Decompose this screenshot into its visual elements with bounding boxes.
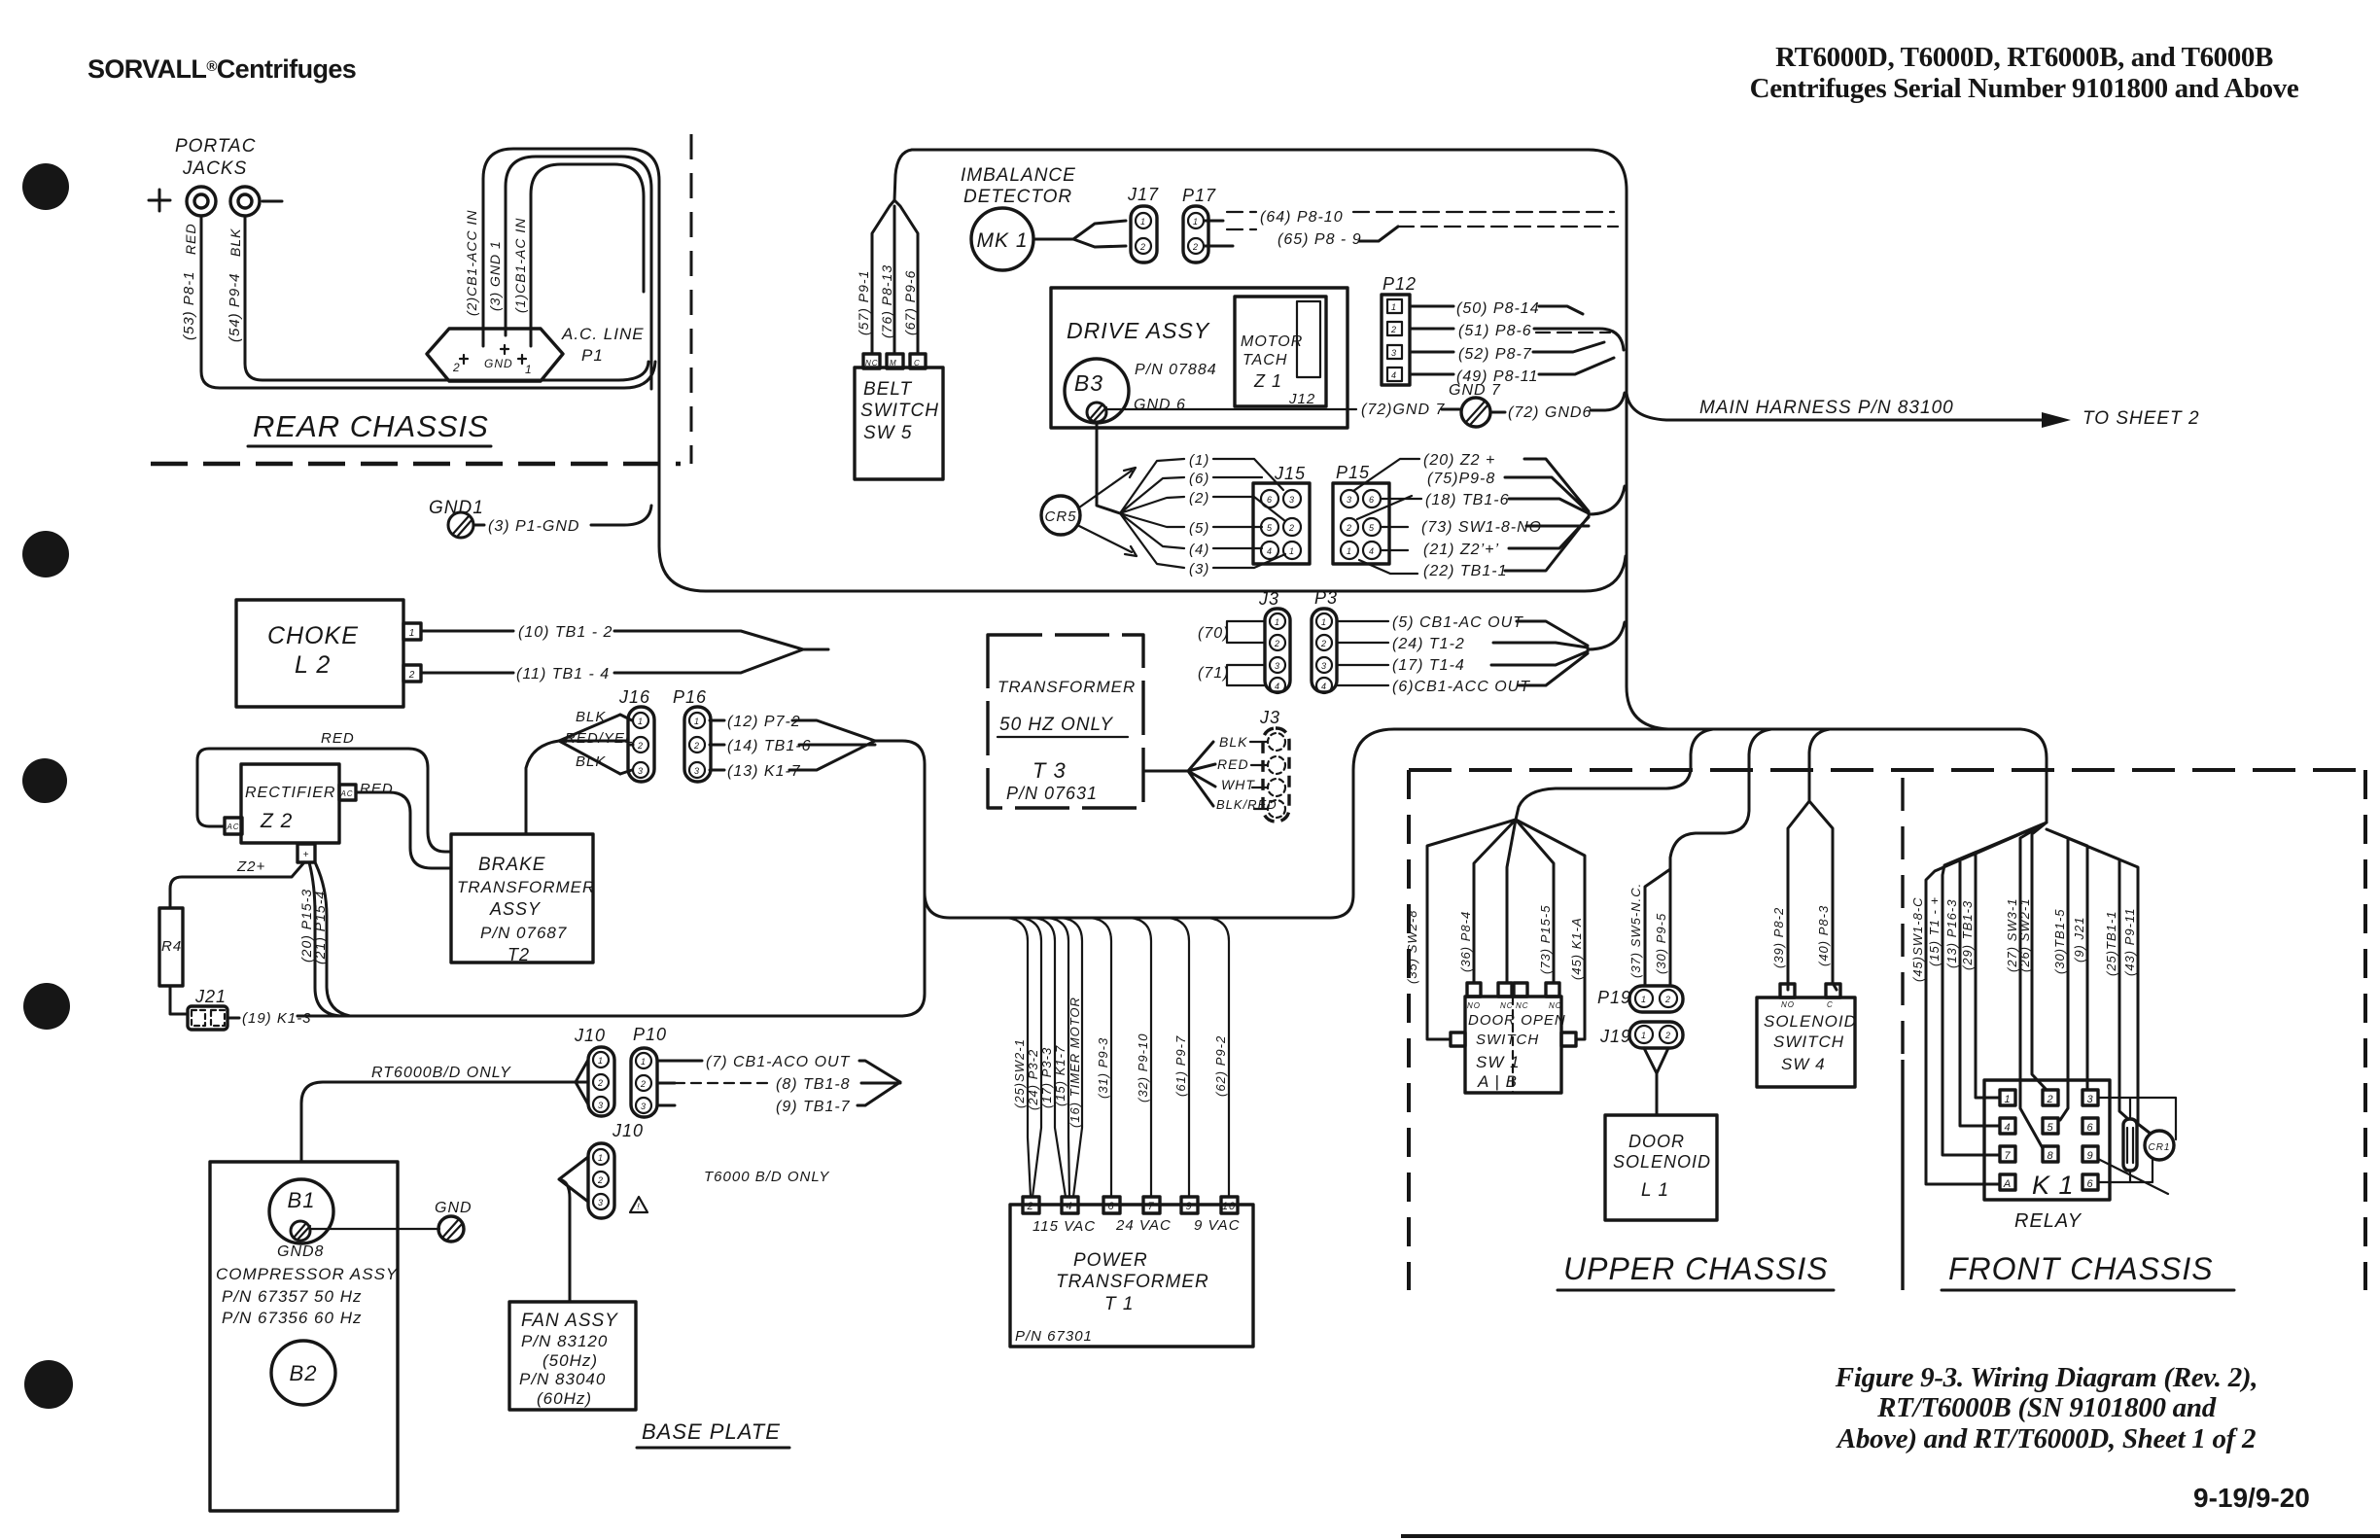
svg-text:J16: J16 [618,687,650,707]
svg-text:(1): (1) [1189,452,1209,469]
svg-text:3: 3 [1289,495,1295,505]
rectifier Z2 [225,764,394,862]
svg-text:1: 1 [694,717,700,726]
svg-text:C: C [914,359,921,367]
svg-text:6: 6 [2086,1122,2093,1134]
svg-text:SOLENOID: SOLENOID [1764,1012,1857,1031]
svg-text:(45) K1-A: (45) K1-A [1569,917,1584,980]
svg-text:MAIN HARNESS P/N 83100: MAIN HARNESS P/N 83100 [1699,398,1954,418]
svg-text:10: 10 [1222,1201,1236,1212]
svg-text:RED: RED [183,223,198,255]
svg-text:R4: R4 [161,938,182,955]
svg-text:SOLENOID: SOLENOID [1613,1152,1711,1172]
connector: J16 [618,687,654,782]
svg-text:(9) J21: (9) J21 [2072,917,2086,962]
svg-text:NO: NO [1781,1000,1795,1009]
svg-text:3: 3 [641,1102,647,1111]
svg-text:5: 5 [2047,1122,2053,1134]
wires: door switch fan [1405,820,1585,1039]
svg-text:BLK: BLK [227,228,243,257]
svg-text:BELT: BELT [863,379,913,400]
wire: branch to P19 [1628,729,1771,986]
svg-text:M: M [890,359,897,367]
wires: front chassis harness fan [1926,822,2151,1184]
svg-text:(57) P9-1: (57) P9-1 [856,270,871,335]
svg-text:115 VAC: 115 VAC [1032,1218,1096,1235]
wire: P17 dashed leads to P8-10 / P8-9 [1205,209,1618,248]
svg-text:(76) P8-13: (76) P8-13 [879,264,894,338]
svg-text:8: 8 [2047,1150,2053,1162]
svg-text:POWER: POWER [1073,1250,1148,1271]
svg-text:2: 2 [1139,242,1146,252]
svg-text:(53) P8-1: (53) P8-1 [181,270,197,340]
svg-text:(31) P9-3: (31) P9-3 [1096,1037,1110,1099]
svg-text:(51) P8-6: (51) P8-6 [1458,323,1532,339]
svg-text:(72)GND 7: (72)GND 7 [1361,402,1445,418]
svg-text:4: 4 [1275,682,1280,691]
svg-text:NO: NO [1467,1001,1481,1010]
svg-text:B3: B3 [1074,370,1103,396]
label BASE PLATE [637,1419,789,1448]
svg-text:A | B: A | B [1477,1072,1518,1091]
svg-text:ASSY: ASSY [489,899,542,919]
svg-text:T 3: T 3 [1032,758,1067,783]
svg-text:(17) T1-4: (17) T1-4 [1392,657,1465,674]
svg-text:1: 1 [1275,617,1280,627]
wires: P15 to harness labels [1353,452,1625,579]
diode CR1 [2145,1131,2176,1160]
svg-text:(10) TB1 - 2: (10) TB1 - 2 [518,624,612,641]
svg-text:TACH: TACH [1242,352,1287,368]
wire: J19 to door solenoid [1644,1048,1668,1115]
switch: DOOR OPEN SWITCH SW1 A/B [1451,983,1576,1093]
svg-text:Z2+: Z2+ [236,858,265,875]
svg-text:RT6000D, T6000D, RT6000B, and: RT6000D, T6000D, RT6000B, and T6000B [1775,42,2273,73]
svg-text:GND 6: GND 6 [1134,397,1186,413]
wire: B3 to GND7 [1106,402,1460,418]
svg-text:(20) Z2 +: (20) Z2 + [1423,452,1495,469]
svg-text:(54) P9-4: (54) P9-4 [227,272,243,342]
svg-text:RED: RED [321,730,355,747]
svg-text:9: 9 [1185,1201,1192,1212]
svg-text:1: 1 [1391,302,1397,312]
svg-text:3: 3 [1275,661,1280,671]
svg-text:SORVALL®Centrifuges: SORVALL®Centrifuges [87,54,356,84]
svg-text:P/N 67301: P/N 67301 [1015,1328,1093,1345]
svg-text:MOTOR: MOTOR [1241,333,1303,350]
svg-text:DRIVE ASSY: DRIVE ASSY [1067,318,1210,343]
box: MOTOR TACH Z1 [1235,297,1326,407]
svg-text:FRONT CHASSIS: FRONT CHASSIS [1948,1251,2214,1286]
wire: loop left corner into belt apex [894,150,912,200]
svg-text:L 1: L 1 [1641,1180,1669,1201]
svg-text:3: 3 [694,766,700,776]
switch: SOLENOID SWITCH SW4 [1757,984,1857,1087]
svg-text:3: 3 [638,766,644,776]
svg-text:P/N 83040: P/N 83040 [519,1370,606,1388]
labels: T1 primary leads [1012,997,1228,1128]
wire: (19) K1-3 run [297,1015,902,1018]
svg-text:4: 4 [1369,546,1375,556]
svg-text:(13) P16-3: (13) P16-3 [1944,899,1959,968]
label REAR CHASSIS [248,409,491,446]
svg-text:P16: P16 [673,687,707,707]
label RED (top wire) [321,730,355,747]
svg-text:Above) and RT/T6000D, Sheet 1: Above) and RT/T6000D, Sheet 1 of 2 [1836,1423,2256,1454]
svg-text:(72) GND6: (72) GND6 [1508,404,1592,421]
page number [2193,1483,2310,1513]
svg-text:B2: B2 [290,1361,318,1385]
svg-text:(3) GND 1: (3) GND 1 [487,240,503,311]
svg-text:(24) T1-2: (24) T1-2 [1392,636,1465,652]
svg-text:PORTAC: PORTAC [175,136,256,157]
svg-text:(43) P9-11: (43) P9-11 [2122,908,2137,976]
svg-text:(25)TB1-1: (25)TB1-1 [2104,910,2118,976]
fan assembly [509,1302,636,1410]
svg-text:(50Hz): (50Hz) [542,1351,598,1370]
svg-text:P/N 67356 60 Hz: P/N 67356 60 Hz [222,1309,362,1327]
svg-text:DOOR OPEN: DOOR OPEN [1468,1012,1566,1029]
svg-text:(35) SW2-8: (35) SW2-8 [1405,910,1419,984]
svg-text:(12) P7-2: (12) P7-2 [727,714,801,730]
wires: P10 outputs [657,1054,900,1115]
svg-text:9 VAC: 9 VAC [1194,1217,1241,1234]
svg-text:RECTIFIER: RECTIFIER [245,785,335,801]
svg-text:J15: J15 [1274,464,1306,483]
svg-text:(19) K1-3: (19) K1-3 [242,1010,312,1027]
switch: BELT SWITCH SW5 [855,200,943,479]
svg-text:1: 1 [1641,1031,1647,1040]
svg-text:1: 1 [409,628,416,639]
svg-text:2: 2 [1026,1201,1033,1212]
rear chassis dashed boundary [151,134,691,464]
label FRONT CHASSIS [1942,1251,2234,1290]
svg-text:GND: GND [484,357,513,370]
compressor assembly [210,1162,399,1511]
wires: P16 outputs merging right [710,714,1672,1016]
svg-text:L 2: L 2 [295,651,331,679]
connector: P19 [1597,986,1683,1012]
svg-text:3: 3 [598,1101,604,1110]
transformer: POWER TRANSFORMER T1 [1010,1197,1253,1347]
svg-text:2: 2 [1346,523,1352,533]
svg-text:T2: T2 [507,945,530,964]
wire: rectifier AC left loop [197,749,451,852]
svg-text:P/N 83120: P/N 83120 [521,1332,608,1350]
svg-text:(49) P8-11: (49) P8-11 [1456,368,1538,385]
svg-text:1: 1 [641,1057,647,1067]
svg-text:2: 2 [452,361,461,374]
svg-text:2: 2 [1390,325,1397,334]
svg-text:WHT: WHT [1221,777,1255,792]
svg-text:6: 6 [1369,495,1375,505]
svg-text:(29) TB1-3: (29) TB1-3 [1960,900,1975,970]
svg-text:RT6000B/D ONLY: RT6000B/D ONLY [371,1065,511,1081]
svg-text:5: 5 [1267,523,1273,533]
svg-text:(25)SW2-1: (25)SW2-1 [1012,1038,1027,1108]
wires: P12 to harness [1410,300,1624,385]
svg-text:BLK: BLK [576,753,606,770]
svg-text:TRANSFORMER: TRANSFORMER [457,878,595,896]
svg-text:SWITCH: SWITCH [860,401,939,421]
svg-text:5: 5 [1369,523,1375,533]
svg-text:(24) P3-2: (24) P3-2 [1026,1049,1040,1110]
svg-text:RED: RED [360,781,394,797]
svg-text:IMBALANCE: IMBALANCE [961,165,1076,186]
svg-text:7: 7 [1147,1201,1154,1212]
connector: J17 [1127,185,1159,262]
svg-text:2: 2 [637,741,644,751]
svg-text:BLK: BLK [1219,734,1247,750]
connector: J3 (upper) [1198,589,1290,693]
ground GND1 [429,498,651,538]
svg-text:1: 1 [1347,546,1352,556]
svg-text:T 1: T 1 [1104,1294,1134,1314]
svg-text:SW 4: SW 4 [1781,1055,1826,1073]
svg-text:3: 3 [1391,348,1397,358]
svg-text:TRANSFORMER: TRANSFORMER [1056,1272,1209,1292]
svg-text:REAR CHASSIS: REAR CHASSIS [253,409,489,443]
svg-text:(15) K1-7: (15) K1-7 [1053,1045,1067,1106]
svg-text:P12: P12 [1382,274,1417,294]
wire: main harness top loop [912,150,2047,822]
svg-text:(62) P9-2: (62) P9-2 [1213,1035,1228,1097]
diode CR5 [1041,468,1137,556]
svg-text:1: 1 [2004,1094,2011,1105]
svg-text:(17) P3-3: (17) P3-3 [1039,1047,1054,1108]
svg-text:(16) TIMER MOTOR: (16) TIMER MOTOR [1067,997,1082,1128]
svg-text:NO: NO [1549,1001,1562,1010]
svg-text:FAN ASSY: FAN ASSY [521,1311,618,1331]
svg-text:(5): (5) [1189,520,1209,537]
svg-text:DOOR: DOOR [1628,1132,1685,1151]
connector: P17 [1182,186,1216,262]
svg-text:GND: GND [435,1200,472,1216]
svg-text:(4): (4) [1189,542,1209,558]
svg-text:P/N 67357 50 Hz: P/N 67357 50 Hz [222,1287,362,1306]
svg-text:RELAY: RELAY [2014,1210,2082,1232]
svg-text:GND1: GND1 [429,498,484,518]
svg-text:(7) CB1-ACO OUT: (7) CB1-ACO OUT [706,1054,851,1070]
svg-text:1: 1 [598,1056,604,1066]
svg-text:(13) K1-7: (13) K1-7 [727,763,801,780]
svg-text:A: A [2003,1178,2012,1190]
svg-text:1: 1 [1289,546,1295,556]
svg-text:(2)CB1-ACC IN: (2)CB1-ACC IN [464,210,479,316]
svg-text:J19: J19 [1599,1027,1631,1046]
svg-text:A.C. LINE: A.C. LINE [561,325,645,343]
svg-text:2: 2 [1288,523,1295,533]
svg-text:1: 1 [1641,995,1647,1004]
svg-text:4: 4 [1267,546,1273,556]
svg-text:Z 2: Z 2 [260,810,293,832]
diode assembly beside K1 [2123,1119,2137,1171]
svg-text:SW 5: SW 5 [863,423,912,443]
svg-text:(75)P9-8: (75)P9-8 [1427,471,1495,487]
svg-text:(3): (3) [1189,561,1209,577]
svg-text:CHOKE: CHOKE [267,622,359,649]
solenoid: DOOR SOLENOID L1 [1605,1115,1717,1220]
svg-text:(18) TB1-6: (18) TB1-6 [1425,492,1509,508]
svg-text:(60Hz): (60Hz) [537,1389,592,1408]
wire: branch to door-open fan [1516,729,1713,820]
svg-text:(21) Z2’+’: (21) Z2’+’ [1423,542,1499,558]
svg-text:(45)SW1-8-C: (45)SW1-8-C [1910,896,1925,982]
svg-text:SW 1: SW 1 [1476,1053,1521,1071]
svg-text:CR5: CR5 [1044,508,1076,525]
wires: CR5/B3 fan to J15 stubs [1120,452,1285,577]
svg-text:6: 6 [2086,1178,2093,1190]
wire bundle: harness drop to T1 [1006,918,1229,1197]
svg-text:4: 4 [1321,682,1327,691]
svg-text:2: 2 [640,1079,647,1089]
wire: MAIN HARNESS to sheet 2 [1627,393,2200,429]
svg-text:7: 7 [2004,1150,2011,1162]
svg-text:(22) TB1-1: (22) TB1-1 [1423,563,1507,579]
svg-text:(8) TB1-8: (8) TB1-8 [776,1076,851,1093]
wire: branch to solenoid switch [1771,729,1837,990]
svg-text:2: 2 [597,1078,604,1088]
connector: J10 [574,1026,614,1116]
inductor: CHOKE L2 [236,600,421,707]
svg-text:9: 9 [2086,1150,2093,1162]
svg-text:50 HZ ONLY: 50 HZ ONLY [999,715,1113,735]
wire: fan feed [559,1157,588,1302]
svg-text:4: 4 [1391,370,1397,380]
label UPPER CHASSIS [1557,1251,1834,1290]
relay K1 [1984,1080,2110,1232]
svg-text:P/N 07687: P/N 07687 [480,924,567,942]
ground GND (compressor) [310,1200,472,1242]
svg-text:4: 4 [1066,1201,1072,1212]
connector: PORTAC JACKS [149,136,282,342]
svg-text:SWITCH: SWITCH [1476,1032,1539,1048]
transformer: BRAKE TRANSFORMER T2 [451,834,595,964]
svg-text:DETECTOR: DETECTOR [963,187,1072,207]
svg-text:(52) P8-7: (52) P8-7 [1458,346,1532,363]
svg-text:P10: P10 [633,1025,667,1044]
svg-text:(73) SW1-8-NO: (73) SW1-8-NO [1421,519,1542,536]
svg-text:(15) T1 - +: (15) T1 - + [1927,896,1942,966]
svg-text:(61) P9-7: (61) P9-7 [1173,1035,1188,1097]
svg-text:(11) TB1 - 4: (11) TB1 - 4 [516,666,610,682]
svg-text:TRANSFORMER: TRANSFORMER [997,678,1136,696]
svg-text:GND8: GND8 [277,1243,324,1260]
connector: P12 [1382,274,1417,385]
svg-text:(14) TB1-6: (14) TB1-6 [727,738,811,754]
svg-text:(37) SW5-N.C.: (37) SW5-N.C. [1628,883,1643,978]
connector: P10 [631,1025,667,1117]
svg-text:(73) P15-5: (73) P15-5 [1538,905,1553,974]
svg-text:SWITCH: SWITCH [1773,1032,1844,1051]
boundary: upper/front divider [1901,778,1904,1290]
transformer: T3 (50 Hz only) [988,635,1277,812]
svg-text:P1: P1 [581,346,604,365]
connector: A.C. LINE P1 [427,210,645,381]
connector: J10 (lower) [588,1121,829,1218]
svg-text:1: 1 [598,1153,604,1163]
svg-text:COMPRESSOR ASSY: COMPRESSOR ASSY [216,1265,399,1283]
svg-text:(26) SW2-1: (26) SW2-1 [2017,898,2032,972]
connector: J15 [1253,464,1310,564]
svg-text:3: 3 [2086,1094,2093,1105]
svg-text:(71): (71) [1198,665,1229,682]
detector: IMBALANCE DETECTOR MK1 [961,165,1126,270]
svg-text:J17: J17 [1127,185,1159,204]
connector: P3 [1312,588,1338,693]
binder hole 2 [22,531,69,577]
svg-text:P/N 07884: P/N 07884 [1135,362,1217,378]
wires: J16 color-coded leads [526,709,634,834]
connector: J21 [188,987,312,1030]
svg-text:K 1: K 1 [2032,1171,2075,1200]
svg-text:4: 4 [2004,1122,2011,1134]
svg-text:2: 2 [1320,639,1327,648]
boundary: upper chassis dashed border [1409,770,2365,1290]
svg-text:TO SHEET 2: TO SHEET 2 [2082,408,2200,429]
svg-text:(21) P15-4: (21) P15-4 [312,891,328,964]
wires: P3 to harness labels [1337,614,1625,695]
wire: relay bottom-right network [2098,1159,2168,1194]
wire: AC bundle corner (P1 wires up/over/down) [483,149,1626,591]
svg-text:!: ! [637,1202,641,1211]
svg-text:J3: J3 [1258,589,1279,609]
svg-text:(64) P8-10: (64) P8-10 [1260,209,1344,226]
svg-text:1: 1 [638,717,644,726]
bottom rule [1401,1534,2380,1538]
svg-text:AC: AC [226,822,239,831]
svg-text:P19: P19 [1597,988,1631,1007]
svg-text:J10: J10 [612,1121,644,1140]
svg-text:2: 2 [1664,995,1671,1004]
svg-text:2: 2 [408,670,416,681]
title: SORVALL Centrifuges [87,54,356,84]
svg-text:1: 1 [1321,617,1327,627]
svg-text:(6): (6) [1189,471,1209,487]
wires: choke to TB1 labels [421,624,828,682]
svg-text:MK 1: MK 1 [976,229,1028,252]
svg-text:RED: RED [1217,756,1249,772]
wire: portac jack leads [201,218,655,388]
svg-text:1: 1 [1193,217,1199,227]
wire: rectifier AC right to brake [356,792,451,868]
svg-text:NC: NC [1516,1001,1529,1010]
svg-text:6: 6 [1267,495,1273,505]
svg-text:P3: P3 [1314,588,1338,608]
svg-text:(65) P8 - 9: (65) P8 - 9 [1277,231,1362,248]
svg-text:+: + [303,850,310,860]
svg-text:1: 1 [1140,217,1146,227]
connector: J19 [1599,1022,1683,1048]
svg-text:(40) P8-3: (40) P8-3 [1816,905,1831,966]
svg-text:2: 2 [693,741,700,751]
svg-text:6: 6 [1107,1201,1114,1212]
labels: front chassis leads [1910,896,2137,982]
svg-text:2: 2 [2046,1094,2053,1105]
wire: relay pin3 network [2098,1098,2176,1132]
binder hole 4 [23,983,70,1030]
motor B3 with GND6 [1065,359,1186,423]
svg-text:J21: J21 [194,987,227,1006]
title: model header right [1750,42,2299,104]
svg-text:(1)CB1-AC IN: (1)CB1-AC IN [512,218,528,313]
svg-text:3: 3 [598,1198,604,1207]
svg-text:UPPER CHASSIS: UPPER CHASSIS [1563,1251,1829,1286]
figure caption [1835,1362,2257,1454]
svg-text:P15: P15 [1336,463,1370,482]
ground GND7 [1449,382,1625,427]
svg-text:24 VAC: 24 VAC [1115,1217,1172,1234]
